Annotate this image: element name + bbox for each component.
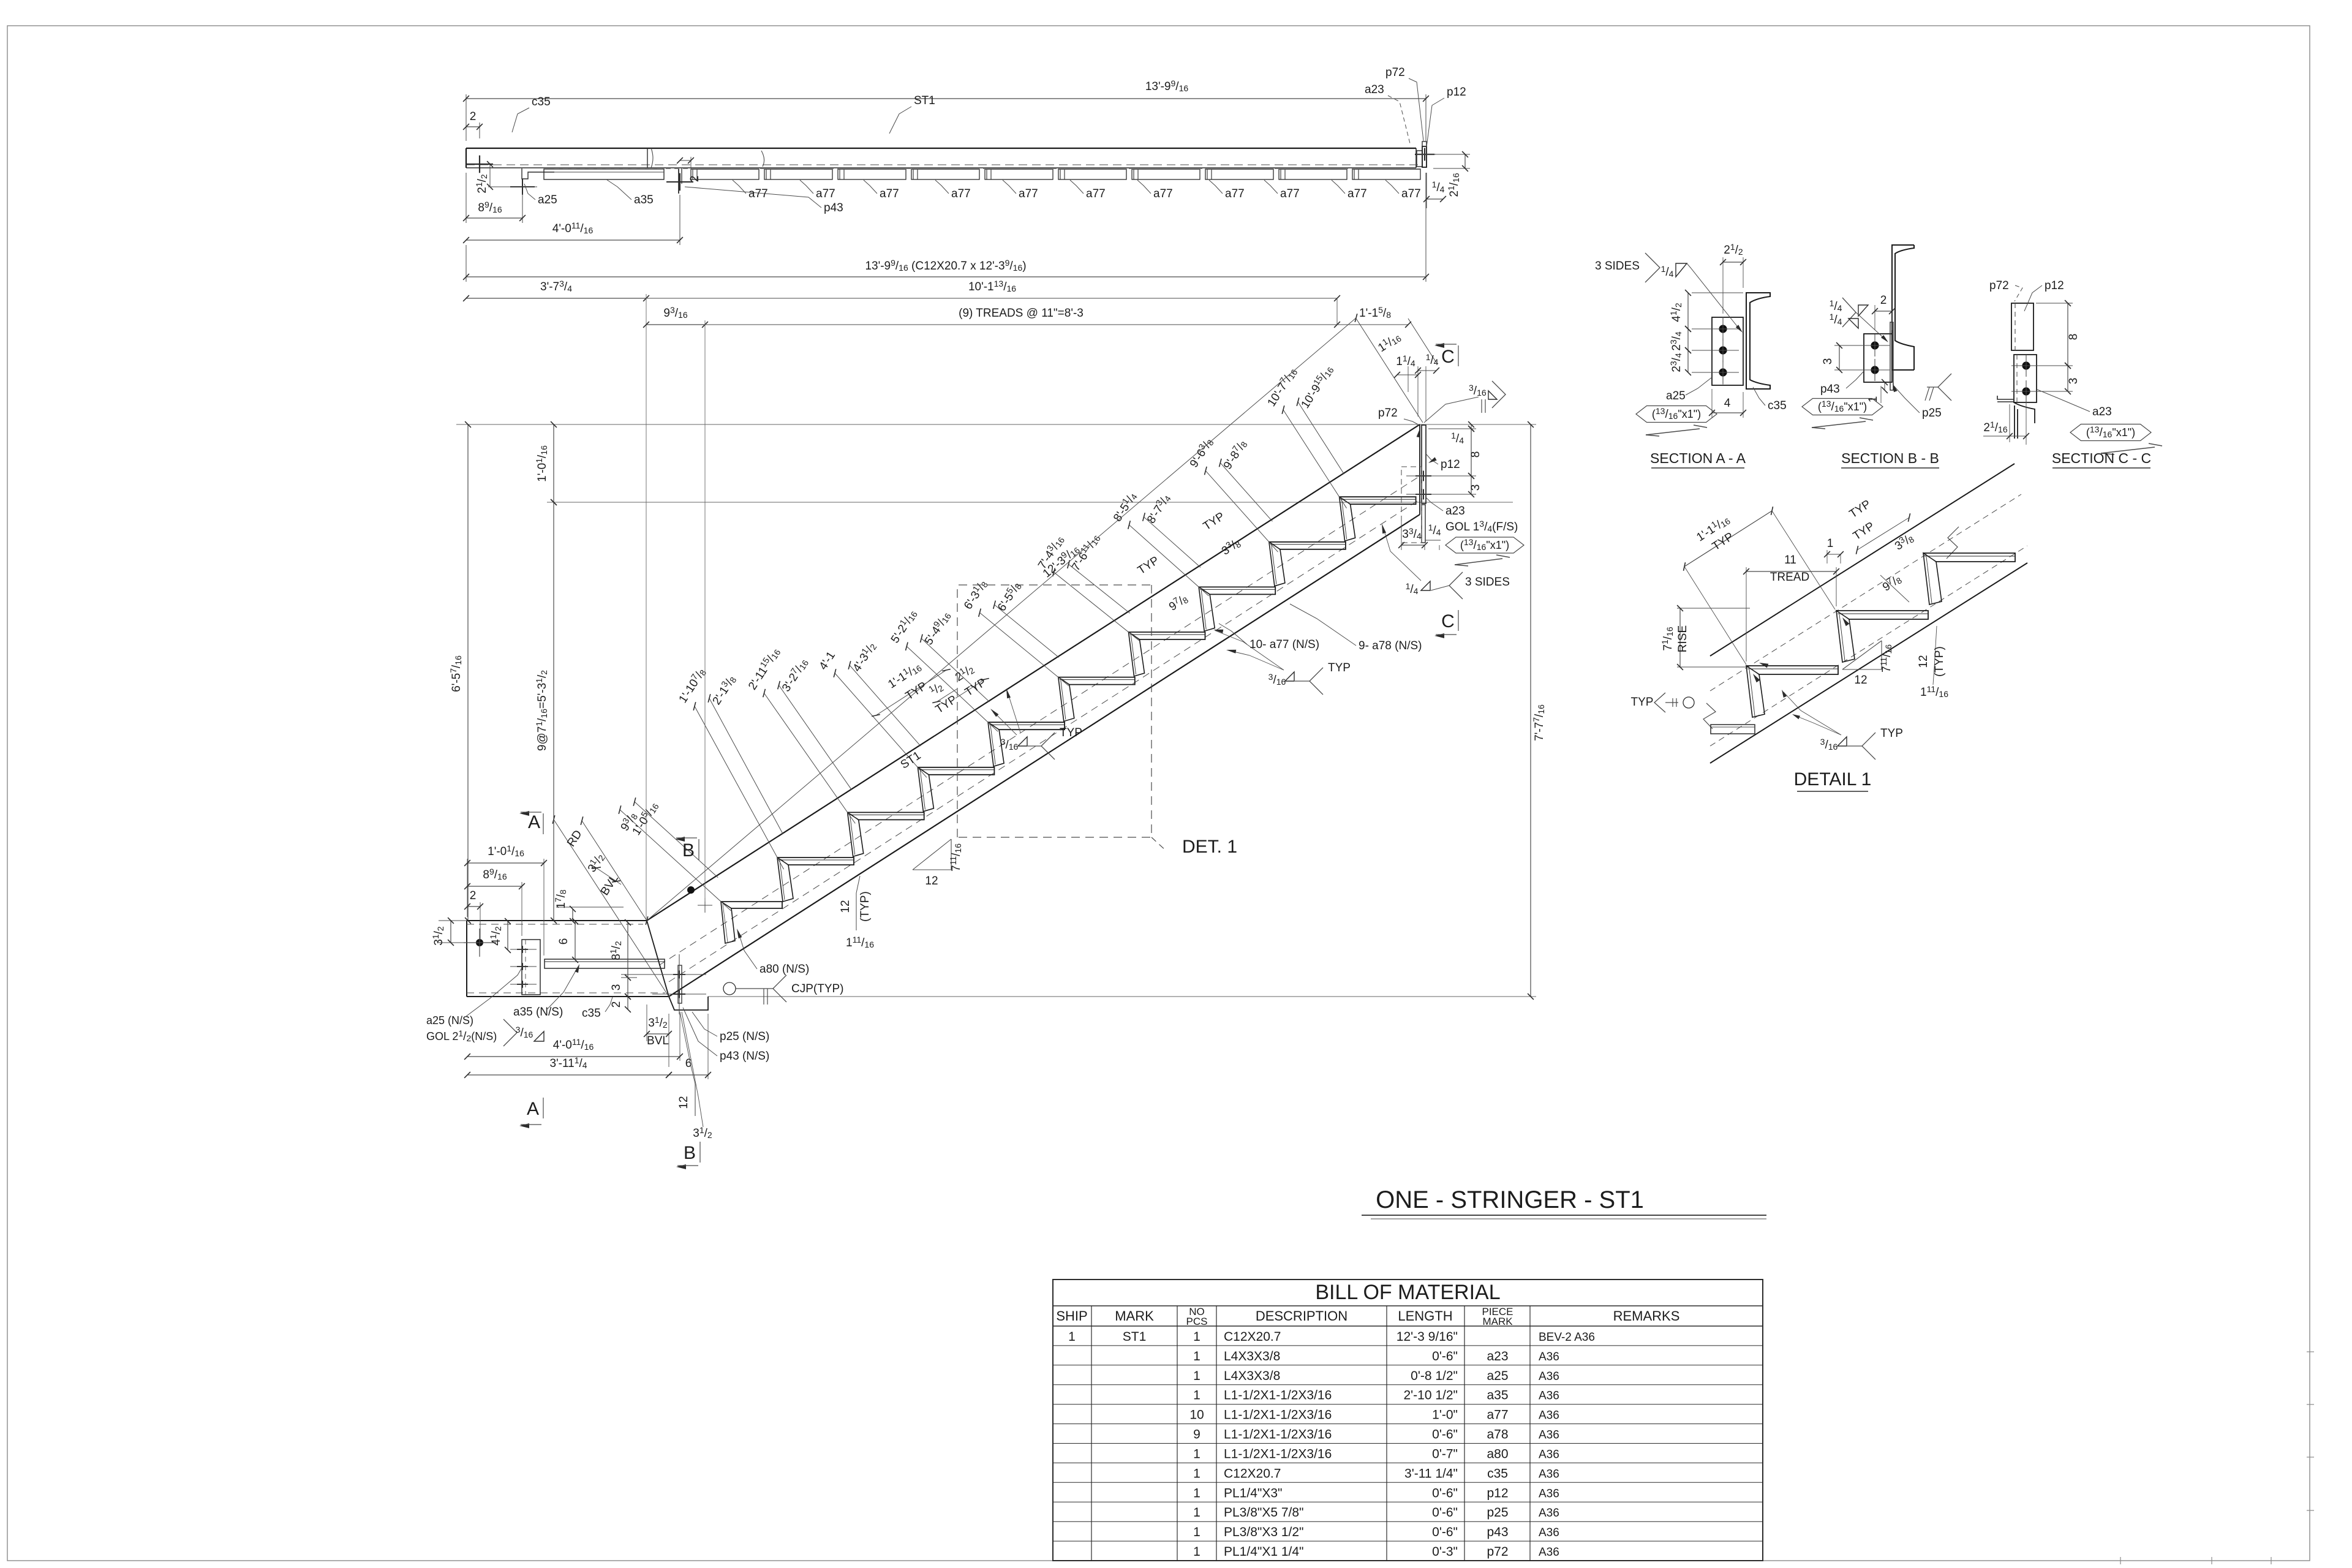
dim 4 bottom: [1711, 389, 1713, 418]
svg-text:ST1: ST1: [914, 94, 935, 107]
a25 bolts: [1719, 325, 1727, 333]
svg-text:a23: a23: [1365, 83, 1384, 96]
plate p12 section: [2011, 303, 2034, 350]
svg-text:p12: p12: [1487, 1486, 1508, 1500]
svg-text:a23: a23: [2092, 405, 2112, 418]
svg-text:a77: a77: [880, 187, 899, 200]
svg-text:a77: a77: [1280, 187, 1300, 200]
clip angle a25 (plan): [522, 168, 554, 179]
svg-text:12: 12: [1854, 674, 1867, 687]
svg-text:A36: A36: [1539, 1409, 1559, 1422]
detail 11 TREAD dim: [1746, 567, 1747, 661]
dim 2: [1874, 305, 1875, 330]
left dim 6ft-5-7/16: [467, 424, 469, 921]
plate p43 edge view: [678, 965, 682, 1003]
elevation dimensions: [431, 274, 1546, 1079]
svg-text:PL1/4"X3": PL1/4"X3": [1224, 1486, 1282, 1500]
weld chevron right: [1938, 374, 1951, 401]
svg-text:1: 1: [1193, 1466, 1200, 1480]
svg-text:2: 2: [1880, 294, 1887, 307]
svg-text:c35: c35: [532, 96, 551, 108]
svg-text:DET. 1: DET. 1: [1182, 837, 1237, 857]
construction line bottom (to right dim): [708, 996, 1536, 997]
svg-text:12'-3 9/16": 12'-3 9/16": [1396, 1330, 1458, 1344]
plate p72 (plan, end): [1422, 141, 1427, 146]
svg-text:a77: a77: [748, 187, 768, 200]
svg-text:1: 1: [1193, 1369, 1200, 1383]
detail nose arrows: [1753, 674, 1760, 682]
stringer right end cut: [1419, 424, 1420, 514]
hidden clip top line (dashed): [554, 168, 1416, 170]
svg-text:a35: a35: [634, 194, 654, 206]
SECTION A-A: [1595, 242, 1787, 468]
dim 8-9/16 (plan): [466, 173, 467, 223]
dim 1-1/4 and 1/4 (corner): [1408, 366, 1409, 392]
dim line pair 5: [980, 612, 1069, 685]
shop splice joint c35/ST1: [647, 148, 648, 168]
svg-text:B: B: [682, 840, 695, 861]
svg-text:1: 1: [1068, 1330, 1076, 1344]
stringer bottom edge: [669, 514, 1420, 997]
dim 4ft-0-11/16 (plan): [679, 195, 680, 245]
a23 bolts: [2022, 362, 2030, 369]
svg-text:DESCRIPTION: DESCRIPTION: [1256, 1308, 1347, 1324]
svg-text:0'-6": 0'-6": [1432, 1428, 1458, 1442]
svg-text:B: B: [684, 1143, 696, 1163]
dim line pair 8: [1205, 471, 1278, 552]
elevation view ST1: [456, 314, 1536, 1014]
DETAIL 1: [1631, 464, 2027, 791]
svg-text:RISE: RISE: [1676, 625, 1689, 652]
dim 1ft-1-5/8: [1337, 324, 1408, 325]
plate p12 elevation: [1422, 425, 1426, 503]
svg-text:a77: a77: [1347, 187, 1367, 200]
angle a23 section: [2014, 355, 2037, 402]
svg-text:L1-1/2X1-1/2X3/16: L1-1/2X1-1/2X3/16: [1224, 1408, 1332, 1422]
svg-text:2: 2: [688, 176, 701, 183]
svg-text:2'-10 1/2": 2'-10 1/2": [1403, 1389, 1458, 1403]
bevel cut line BVL: [647, 921, 669, 997]
svg-text:A36: A36: [1539, 1468, 1559, 1480]
svg-text:p12: p12: [2045, 279, 2064, 292]
svg-text:a80 (N/S): a80 (N/S): [759, 963, 809, 976]
dim 8 and 3 (C-C): [2036, 303, 2073, 304]
svg-text:8: 8: [2067, 334, 2080, 341]
svg-text:TREAD: TREAD: [1770, 571, 1809, 584]
dim line pair 3: [835, 673, 927, 777]
hidden a23 outline (dashed): [1401, 467, 1422, 543]
svg-text:A36: A36: [1539, 1487, 1559, 1500]
detail dim 1: [1826, 550, 1828, 563]
dim 9-3/16: [646, 324, 705, 325]
slope triangle 12:7-11/16: [913, 869, 951, 870]
svg-text:a77: a77: [1401, 187, 1421, 200]
dim 3ft-7-3/4: [466, 287, 467, 294]
svg-text:p25: p25: [1922, 407, 1942, 420]
svg-text:p72: p72: [1378, 407, 1398, 420]
hidden web line (dashed): [466, 164, 1422, 165]
hex 13/16x1 (B): [1802, 399, 1883, 415]
detail 1ft-1-1/16 TYP dim: [1684, 567, 1746, 666]
clip angle a35 (plan): [544, 169, 664, 179]
weld 3/16 (landing): [503, 1019, 517, 1046]
svg-text:3'-11 1/4": 3'-11 1/4": [1404, 1466, 1458, 1480]
dim line pair 0: [620, 810, 731, 911]
svg-text:a25: a25: [1487, 1369, 1508, 1383]
svg-text:9- a78 (N/S): 9- a78 (N/S): [1359, 639, 1422, 652]
svg-text:1: 1: [1193, 1389, 1200, 1403]
svg-text:p43: p43: [824, 202, 843, 214]
svg-text:a25: a25: [1666, 390, 1686, 402]
svg-text:MARK: MARK: [1115, 1308, 1154, 1324]
dim 1: [1880, 386, 1882, 403]
dim 2-1/2 (plan left, vertical): [489, 164, 491, 187]
hex 13/16x1: [1636, 406, 1717, 423]
left dim 9@7-1/16: [553, 502, 554, 921]
svg-text:PCS: PCS: [1186, 1316, 1208, 1327]
svg-text:12: 12: [925, 875, 938, 888]
dim 4ft-0-11/16 (elev): [679, 1014, 680, 1061]
svg-text:13'-99/16​ (C12X20.7 x 12'-39/: 13'-99/16​ (C12X20.7 x 12'-39/16​): [865, 258, 1026, 273]
svg-text:a77: a77: [1019, 187, 1038, 200]
svg-text:L4X3X3/8: L4X3X3/8: [1224, 1349, 1280, 1363]
svg-text:p25 (N/S): p25 (N/S): [720, 1030, 769, 1043]
landing channel c35 elevation: [467, 920, 647, 921]
svg-text:1: 1: [1193, 1506, 1200, 1520]
clip a25 elevation: [522, 940, 540, 995]
channel c35 section: [1746, 293, 1770, 389]
svg-text:1: 1: [1193, 1486, 1200, 1500]
svg-text:(9) TREADS @ 11"=8'-3: (9) TREADS @ 11"=8'-3: [959, 307, 1084, 320]
svg-text:TYP: TYP: [1060, 726, 1082, 739]
construction line p12 bottom: [547, 502, 1513, 503]
plan view: stringer ST1 top view: [463, 66, 1470, 282]
svg-text:12: 12: [1917, 655, 1930, 668]
svg-text:A36: A36: [1539, 1429, 1559, 1442]
dim 3-1/2 BVL (lower): [646, 1005, 647, 1041]
plate p12 end (plan): [1415, 148, 1417, 168]
svg-text:a77: a77: [951, 187, 971, 200]
drawing title: [1362, 1186, 1766, 1219]
svg-text:c35: c35: [1768, 399, 1787, 412]
gauge line top (dashed): [659, 475, 1421, 965]
svg-text:p43: p43: [1487, 1525, 1508, 1539]
svg-text:SHIP: SHIP: [1056, 1308, 1087, 1324]
detail 9-7/8: [1880, 575, 1909, 602]
svg-text:3: 3: [2067, 378, 2080, 385]
plate p43 (plan): [678, 168, 679, 194]
svg-text:1: 1: [1193, 1447, 1200, 1461]
svg-text:(TYP): (TYP): [859, 891, 872, 922]
dim 1/4 (plan right): [1426, 173, 1427, 208]
svg-text:a77: a77: [1225, 187, 1245, 200]
detail band edges: [1710, 464, 2015, 656]
angle a23 elevation (edge): [1422, 505, 1425, 543]
svg-text:BVL: BVL: [647, 1035, 669, 1047]
svg-text:p72: p72: [1385, 66, 1405, 79]
clip a35 elevation: [545, 959, 665, 968]
detail treads: [1746, 666, 1838, 674]
dim 6: [575, 921, 576, 960]
svg-text:3: 3: [610, 984, 623, 991]
svg-text:BILL OF MATERIAL: BILL OF MATERIAL: [1315, 1281, 1500, 1304]
svg-text:SECTION A - A: SECTION A - A: [1650, 450, 1746, 466]
svg-text:1'-0": 1'-0": [1432, 1408, 1458, 1422]
dim line pair 1: [695, 706, 784, 869]
hex 13/16x1 (C): [2070, 424, 2151, 441]
svg-text:3'-111/4​: 3'-111/4​: [549, 1055, 587, 1070]
work point: [476, 939, 483, 946]
svg-text:0'-7": 0'-7": [1432, 1447, 1458, 1461]
svg-text:CJP(TYP): CJP(TYP): [791, 982, 844, 995]
svg-text:2: 2: [610, 1001, 623, 1008]
svg-text:BEV-2 A36: BEV-2 A36: [1539, 1331, 1595, 1344]
dim 2-1/16 (plan right): [1428, 154, 1470, 155]
detail TYP 3-3/8: [1857, 518, 1909, 550]
detail 12 TYP right: [1933, 626, 1937, 685]
detail slope triangle: [1842, 669, 1882, 670]
detail break marks: [1703, 703, 1716, 729]
svg-text:a35 (N/S): a35 (N/S): [513, 1006, 563, 1019]
dims 8-1/2 3 2: [627, 922, 628, 978]
svg-text:a78: a78: [1487, 1428, 1508, 1442]
svg-text:L1-1/2X1-1/2X3/16: L1-1/2X1-1/2X3/16: [1224, 1389, 1332, 1403]
dim 1/4 8 3 (right end chain): [1428, 428, 1476, 429]
svg-text:p12: p12: [1447, 86, 1466, 99]
svg-text:A36: A36: [1539, 1390, 1559, 1403]
top dim chain: [466, 274, 467, 282]
svg-text:p72: p72: [1487, 1545, 1508, 1559]
svg-text:L1-1/2X1-1/2X3/16: L1-1/2X1-1/2X3/16: [1224, 1428, 1332, 1442]
svg-text:1: 1: [1193, 1545, 1200, 1559]
dim line pair 7: [1129, 525, 1209, 596]
clip angles a77 x10 (plan): [691, 169, 759, 179]
p43 bolts: [1871, 342, 1879, 349]
svg-text:C12X20.7: C12X20.7: [1224, 1466, 1281, 1480]
svg-text:a80: a80: [1487, 1447, 1508, 1461]
plate p25 tab: [669, 997, 708, 1010]
svg-text:9: 9: [1193, 1428, 1200, 1442]
dim 6 (tab): [707, 1014, 709, 1079]
landing dims above: [467, 859, 468, 917]
BILL OF MATERIAL table: [1053, 1280, 1763, 1561]
svg-text:0'-3": 0'-3": [1432, 1545, 1458, 1559]
SECTION B-B: [1802, 245, 1951, 468]
channel end below: [1997, 396, 2014, 399]
svg-text:1: 1: [1193, 1330, 1200, 1344]
dim line pair 6: [1054, 572, 1139, 641]
gauge line bottom (dashed): [669, 499, 1421, 982]
dim 3ft-11-1/4: [467, 1074, 669, 1076]
svg-text:p12: p12: [1441, 458, 1460, 471]
slope 12:1-11/16 TYP: [856, 893, 857, 930]
svg-text:a23: a23: [1487, 1349, 1508, 1363]
detail gauge dashed: [1710, 494, 2021, 691]
TYP spacing dims: [876, 670, 946, 715]
svg-text:a77: a77: [816, 187, 835, 200]
detail a35 bar: [1711, 725, 1755, 734]
svg-text:TYP: TYP: [1328, 661, 1351, 674]
elevation annotations: [426, 343, 1524, 1169]
svg-text:a35: a35: [1487, 1389, 1508, 1403]
svg-text:0'-6": 0'-6": [1432, 1349, 1458, 1363]
dim 3 (left): [1834, 345, 1860, 346]
overall slope dim 12ft-3-9/16: [647, 318, 1356, 921]
svg-text:A36: A36: [1539, 1507, 1559, 1520]
right dim 7ft-7-7/16: [1424, 424, 1536, 425]
svg-text:1: 1: [1193, 1525, 1200, 1539]
svg-text:ONE - STRINGER - ST1: ONE - STRINGER - ST1: [1376, 1186, 1644, 1213]
svg-text:a25: a25: [538, 194, 557, 206]
svg-text:a23: a23: [1445, 505, 1465, 518]
svg-text:12: 12: [677, 1096, 690, 1109]
svg-text:SECTION B - B: SECTION B - B: [1841, 450, 1939, 466]
svg-text:LENGTH: LENGTH: [1398, 1308, 1452, 1324]
dim 2 (plan left): [479, 123, 480, 138]
svg-text:C12X20.7: C12X20.7: [1224, 1330, 1281, 1344]
construction line top: [456, 424, 1424, 425]
svg-text:L4X3X3/8: L4X3X3/8: [1224, 1369, 1280, 1383]
dim 13ft-9-9/16 (plan top): [466, 94, 467, 141]
bevel dim 3-1/2 BVL (upper): [592, 865, 621, 884]
svg-text:2: 2: [470, 889, 477, 902]
angle a80 elevation: [721, 902, 782, 908]
DET.1 dashed box: [957, 585, 1151, 837]
CJP weld note: [723, 982, 736, 995]
svg-text:A: A: [528, 812, 540, 832]
corner ext lines: [1356, 318, 1423, 423]
plate a25 section: [1712, 317, 1743, 385]
dim (9) TREADS: [705, 324, 1337, 325]
svg-text:0'-6": 0'-6": [1432, 1486, 1458, 1500]
svg-text:0'-8 1/2": 0'-8 1/2": [1411, 1369, 1458, 1383]
svg-text:C: C: [1441, 611, 1455, 631]
svg-text:A36: A36: [1539, 1351, 1559, 1363]
svg-text:A36: A36: [1539, 1370, 1559, 1383]
svg-text:a77: a77: [1487, 1408, 1508, 1422]
svg-text:SECTION C - C: SECTION C - C: [2052, 450, 2151, 466]
svg-text:10: 10: [1189, 1408, 1204, 1422]
svg-text:p72: p72: [1989, 279, 2009, 292]
svg-text:p43: p43: [1820, 383, 1840, 396]
left dim 3-1/2 (bottom): [439, 920, 467, 921]
svg-text:4: 4: [1724, 397, 1731, 410]
dim line pair 2: [764, 693, 856, 824]
svg-text:p43 (N/S): p43 (N/S): [720, 1050, 769, 1063]
svg-text:L1-1/2X1-1/2X3/16: L1-1/2X1-1/2X3/16: [1224, 1447, 1332, 1461]
svg-text:(TYP): (TYP): [1933, 646, 1946, 677]
svg-text:3: 3: [1469, 484, 1482, 491]
svg-text:c35: c35: [582, 1007, 601, 1020]
svg-text:2: 2: [470, 110, 477, 123]
dim line pair 4: [907, 646, 998, 731]
left dim 1ft-0-1/16 (vert): [553, 424, 554, 502]
svg-text:1: 1: [1193, 1349, 1200, 1363]
bevel slope triangle 12:3-1/2: [695, 1084, 696, 1116]
channel ST1 plan outline: [466, 148, 1416, 149]
channel ST1 section (B-B): [1892, 245, 1914, 370]
svg-text:PL3/8"X3 1/2": PL3/8"X3 1/2": [1224, 1525, 1304, 1539]
svg-text:TYP: TYP: [1631, 696, 1654, 709]
svg-text:C: C: [1441, 347, 1455, 367]
svg-text:1: 1: [1827, 537, 1834, 550]
svg-text:REMARKS: REMARKS: [1613, 1308, 1680, 1324]
svg-text:A: A: [527, 1099, 539, 1119]
svg-text:12: 12: [839, 900, 852, 913]
dim 13ft-9-9/16 C12X20.7 (plan bottom): [466, 245, 467, 282]
svg-text:ST1: ST1: [1123, 1330, 1147, 1344]
svg-text:PL3/8"X5 7/8": PL3/8"X5 7/8": [1224, 1506, 1304, 1520]
svg-text:3 SIDES: 3 SIDES: [1595, 260, 1640, 273]
dims 4-1/2 2-3/4 2-3/4: [1692, 292, 1743, 293]
stringer top edge: [647, 424, 1420, 921]
svg-text:MARK: MARK: [1482, 1316, 1513, 1327]
svg-text:0'-6": 0'-6": [1432, 1506, 1458, 1520]
dim 10ft-1-13/16: [646, 298, 1337, 299]
plate p25 section: [1890, 322, 1893, 390]
svg-text:DETAIL 1: DETAIL 1: [1794, 769, 1872, 790]
svg-text:8: 8: [1469, 451, 1482, 458]
svg-text:A36: A36: [1539, 1546, 1559, 1559]
plate p72 hidden (dash): [2015, 303, 2016, 350]
bolt at plan right end: [1415, 154, 1434, 155]
dim 2-1/16: [2009, 404, 2010, 442]
dim 4-1/2: [507, 921, 508, 950]
black dot on top edge: [687, 886, 695, 894]
dim 1-7/8: [556, 907, 624, 908]
detail rise dim: [1677, 608, 1750, 609]
svg-text:p25: p25: [1487, 1506, 1508, 1520]
svg-text:c35: c35: [1487, 1466, 1508, 1480]
dim 2-1/2 top: [1722, 257, 1724, 314]
svg-text:PL1/4"X1 1/4": PL1/4"X1 1/4": [1224, 1545, 1304, 1559]
svg-text:0'-6": 0'-6": [1432, 1525, 1458, 1539]
svg-text:a77: a77: [1086, 187, 1106, 200]
svg-text:A36: A36: [1539, 1449, 1559, 1461]
SECTION C-C: [1983, 279, 2162, 468]
svg-text:6: 6: [557, 938, 570, 945]
dim 2 (p43 to a77 gap): [690, 157, 692, 169]
svg-text:TYP: TYP: [1880, 727, 1903, 740]
svg-text:A36: A36: [1539, 1526, 1559, 1539]
dim line pair 9: [1283, 410, 1347, 508]
svg-text:3 SIDES: 3 SIDES: [1465, 576, 1510, 589]
svg-text:3: 3: [1822, 358, 1834, 365]
svg-text:11: 11: [1784, 554, 1796, 567]
dims 3-3/4 1/4 (a23): [1401, 521, 1402, 550]
plate p43 section: [1864, 334, 1892, 382]
treads a78/a77 x9: [777, 858, 854, 865]
svg-text:10- a77 (N/S): 10- a77 (N/S): [1249, 638, 1319, 651]
svg-text:a77: a77: [1153, 187, 1173, 200]
